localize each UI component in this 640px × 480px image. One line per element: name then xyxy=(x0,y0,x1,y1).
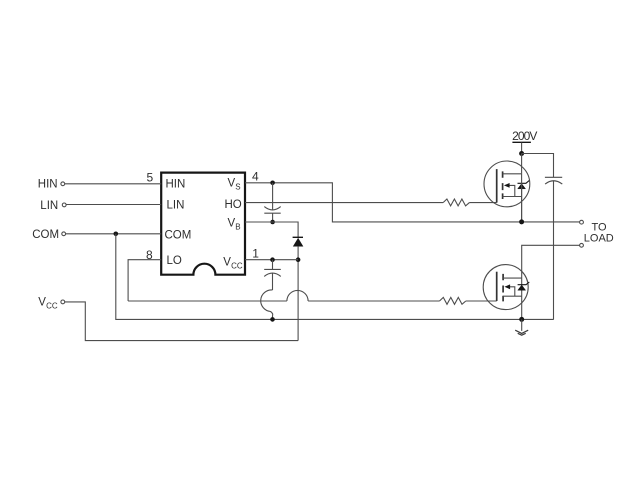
svg-text:COM: COM xyxy=(165,229,192,241)
diode D1 triangle xyxy=(293,238,302,246)
capacitor bootstrap CB top lead xyxy=(272,183,274,210)
wire load return to Q2 drain xyxy=(522,245,580,319)
wire VCC pin line xyxy=(245,259,298,261)
wire bus to reservoir cap branch xyxy=(522,154,554,178)
node VB dot xyxy=(270,220,275,225)
resistor R1 xyxy=(443,199,469,206)
capacitor C200 bottom lead xyxy=(553,181,555,320)
wire diode anode to VCC line xyxy=(297,246,299,340)
capacitor CVCC top lead xyxy=(272,260,274,270)
transistor Q2 circle xyxy=(483,265,528,310)
svg-text:HIN: HIN xyxy=(166,178,186,190)
wire 200V node to Q1 drain xyxy=(521,154,523,174)
capacitor CVCC bottom lead xyxy=(272,273,274,290)
wire VCC terminal feed xyxy=(65,302,298,341)
wire cap lead loop around LO line xyxy=(261,290,273,319)
svg-text:LIN: LIN xyxy=(167,199,185,211)
node diode-VCC dot xyxy=(296,257,301,262)
node switch node dot xyxy=(519,219,524,224)
svg-text:CC: CC xyxy=(46,302,58,311)
svg-text:LO: LO xyxy=(167,255,182,267)
svg-text:S: S xyxy=(235,182,240,191)
wire LO line to gate resistor xyxy=(308,300,439,302)
terminal TO open circle xyxy=(580,220,584,224)
svg-text:HO: HO xyxy=(225,199,242,211)
wire R1 to Q1 gate xyxy=(469,202,496,204)
node VS pin dot xyxy=(270,181,275,186)
transistor Q1 drain lead xyxy=(503,173,522,175)
wire VB pin to diode branch xyxy=(245,222,298,237)
svg-text:200V: 200V xyxy=(512,129,537,143)
transistor Q2 body diode xyxy=(518,285,526,290)
transistor Q1 body diode xyxy=(518,184,526,189)
wire HIN terminal to pin 5 xyxy=(65,183,161,185)
terminal HIN open circle xyxy=(61,182,65,186)
resistor R2 xyxy=(440,297,466,304)
IC U1 outline with bottom notch xyxy=(161,173,245,275)
terminal LOAD open circle xyxy=(580,243,584,247)
wire HO pin to gate resistor xyxy=(245,202,443,204)
wire 200V to bus node xyxy=(521,143,523,154)
transistor Q1 gate bar xyxy=(496,169,498,203)
capacitor bootstrap CB flat plate xyxy=(264,212,280,214)
capacitor CVCC curved plate xyxy=(264,273,281,276)
svg-text:COM: COM xyxy=(32,229,59,241)
wire LO line left of hop xyxy=(128,300,287,302)
svg-text:4: 4 xyxy=(252,169,259,183)
node cap to COM bus dot xyxy=(270,317,275,322)
ground symbol xyxy=(515,330,528,335)
wire LIN terminal to LIN pin xyxy=(66,204,161,206)
transistor Q1 source lead xyxy=(503,196,522,198)
svg-text:V: V xyxy=(38,297,46,309)
node ground node dot xyxy=(519,317,524,322)
svg-text:B: B xyxy=(235,223,240,232)
capacitor C200 curved plate xyxy=(545,181,562,184)
transistor Q1 channel segments xyxy=(502,171,504,199)
svg-text:V: V xyxy=(228,177,236,189)
transistor Q2 channel segments xyxy=(502,274,504,302)
svg-text:1: 1 xyxy=(252,246,259,260)
wire COM down leg and ground bus xyxy=(116,234,554,320)
wire hop over diode branch xyxy=(287,290,308,301)
terminal COM open circle xyxy=(62,232,66,236)
transistor Q1 body arrow xyxy=(509,185,515,196)
terminal VCC open circle xyxy=(61,300,65,304)
svg-text:V: V xyxy=(228,218,236,230)
capacitor C200 flat plate xyxy=(545,176,562,178)
transistor Q1 circle xyxy=(484,161,530,207)
wire VS pin to switch node xyxy=(245,183,580,222)
terminal LIN open circle xyxy=(62,203,66,207)
transistor Q2 gate bar xyxy=(496,272,498,301)
capacitor bootstrap CB bottom lead xyxy=(272,213,274,222)
svg-text:HIN: HIN xyxy=(38,179,58,191)
supply rail bar xyxy=(512,141,531,143)
diode D1 cathode bar xyxy=(293,236,303,238)
svg-text:5: 5 xyxy=(147,170,154,184)
capacitor bootstrap CB curved plate xyxy=(264,207,280,210)
wire R2 to Q2 gate xyxy=(466,300,497,302)
wire COM terminal to COM pin xyxy=(66,233,162,235)
svg-text:LIN: LIN xyxy=(40,200,58,212)
transistor Q2 source lead xyxy=(503,295,522,297)
wire Q1 source to switch node xyxy=(521,174,523,222)
wire LO pin routing xyxy=(128,260,161,301)
transistor Q2 body arrow xyxy=(510,287,515,296)
transistor Q2 drain lead xyxy=(503,277,522,279)
svg-text:LOAD: LOAD xyxy=(584,233,614,245)
svg-text:CC: CC xyxy=(231,262,243,271)
wire ground stub xyxy=(521,319,523,331)
node 200V bus dot xyxy=(519,151,524,156)
node COM junction dot xyxy=(114,232,119,237)
node VCC cap dot xyxy=(270,257,275,262)
capacitor CVCC flat plate xyxy=(264,268,281,270)
svg-text:V: V xyxy=(223,257,231,269)
